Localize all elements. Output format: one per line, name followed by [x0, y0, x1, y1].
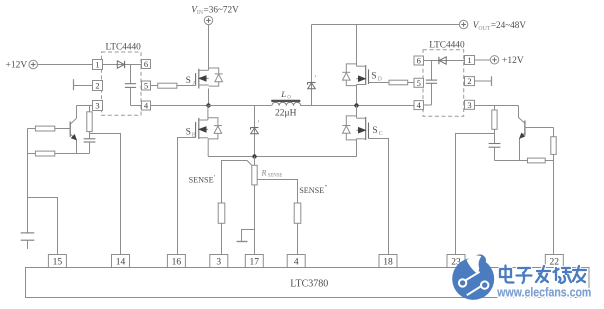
- svg-text:R: R: [261, 168, 267, 177]
- watermark text dianzifashaoyou: [500, 266, 586, 284]
- wire R5 to pin4: [297, 223, 299, 254]
- resistor R8 (U1 pin3 pull): [87, 106, 92, 139]
- wire VIN down to Q1 drain: [208, 25, 210, 71]
- resistor R9 (U2 pin3 pull): [492, 106, 497, 144]
- svg-text:+12V: +12V: [6, 61, 28, 71]
- svg-text:5: 5: [417, 78, 421, 88]
- svg-text:+12V: +12V: [502, 56, 524, 66]
- svg-text:6: 6: [144, 59, 148, 69]
- node SW2 junction: [354, 103, 358, 107]
- resistor R11 (right emitter rail): [495, 158, 554, 163]
- wire GND rail: [208, 156, 356, 158]
- pin 2 U1: [93, 81, 103, 91]
- svg-text:C: C: [379, 131, 383, 137]
- svg-text:3: 3: [95, 101, 99, 111]
- label SENSE-: [299, 184, 327, 195]
- pin 6 U1: [142, 59, 151, 69]
- capacitor C4 (node B): [489, 144, 501, 161]
- pin 15 U3: [48, 255, 66, 268]
- svg-text:6: 6: [417, 56, 421, 66]
- svg-text:S: S: [186, 76, 191, 86]
- label U2 LTC4440: [429, 40, 465, 50]
- capacitor C1 bootstrap (U1): [125, 65, 142, 106]
- svg-text:LTC3780: LTC3780: [290, 279, 328, 290]
- wire S_B gate to pin16: [178, 138, 196, 255]
- svg-text:3: 3: [216, 257, 221, 267]
- node SW1 junction: [206, 103, 210, 107]
- wire SW1 node: [208, 89, 210, 106]
- svg-text:D: D: [378, 77, 382, 83]
- wire U2 pin2 stub: [475, 76, 492, 86]
- wire switch line left: [151, 105, 209, 107]
- pin 5 U2: [414, 78, 424, 88]
- wire R4 to pin3: [221, 223, 223, 254]
- wire S_B source to GND rail: [207, 139, 209, 157]
- wire inductor to SW2: [300, 105, 414, 107]
- label 22uH: [275, 109, 297, 119]
- svg-text:SENSE: SENSE: [268, 174, 283, 179]
- resistor R1 gate S_A: [151, 83, 196, 88]
- svg-text:1: 1: [467, 55, 471, 65]
- node +12V (right supply): [475, 56, 524, 67]
- svg-text:3: 3: [467, 100, 471, 110]
- node GND/Rsense junction: [252, 154, 256, 158]
- node VOUT=24~48V: [459, 20, 526, 32]
- pin 3 U1: [93, 101, 103, 111]
- wire branch to pin15: [28, 198, 58, 255]
- svg-text:www.elecfans.com: www.elecfans.com: [496, 284, 591, 299]
- pin 4 U1: [142, 101, 151, 111]
- node VIN=36~72V: [191, 4, 239, 24]
- svg-text:18: 18: [383, 257, 393, 267]
- pin 2 U2: [465, 76, 475, 86]
- pin 1 U2: [465, 55, 475, 65]
- resistor R7 (emitter rail): [28, 151, 90, 156]
- pin 1 U1: [93, 60, 103, 70]
- diode D4 bootstrap (U2 internal): [424, 57, 465, 64]
- inductor L1 22uH: [271, 101, 300, 106]
- pin 14 U3: [112, 255, 130, 268]
- svg-text:S: S: [372, 126, 377, 136]
- capacitor C2 (left bottom): [21, 233, 35, 249]
- diode D1 bootstrap (U1 internal): [103, 61, 142, 68]
- svg-text:LTC4440: LTC4440: [106, 43, 142, 53]
- pin 23 U3: [447, 255, 465, 268]
- svg-text:15: 15: [53, 257, 63, 267]
- svg-text:5: 5: [144, 81, 148, 91]
- capacitor C5 bootstrap (U2): [424, 61, 438, 106]
- transistor Q4 S_D (top-right MOSFET): [342, 64, 381, 86]
- wire D2 branch: [254, 106, 256, 157]
- label R3 RSENSE: [261, 168, 283, 178]
- wire U1 pin2 stub: [74, 79, 93, 90]
- wire SENSE- net: [257, 180, 297, 204]
- pin 4 U3: [287, 255, 305, 268]
- svg-text:2: 2: [95, 81, 99, 91]
- resistor R10 (base to pin22): [551, 128, 556, 255]
- svg-text:S: S: [186, 127, 191, 137]
- op-amp U3 LTC3780 main controller box: [26, 268, 590, 298]
- svg-text:14: 14: [116, 257, 126, 267]
- resistor R5 SENSE-: [294, 203, 301, 223]
- svg-text:O: O: [287, 94, 291, 100]
- svg-text:16: 16: [172, 257, 182, 267]
- wire Q4 source to SW2: [356, 85, 358, 106]
- wire S_C source to GND rail: [356, 139, 358, 157]
- op-amp U1 LTC4440 (left gate driver, dashed outline): [102, 52, 142, 115]
- svg-text:’: ’: [314, 75, 316, 83]
- capacitor C3 (node A): [84, 139, 96, 154]
- watermark logo disc: [452, 254, 494, 299]
- svg-text:LTC4440: LTC4440: [429, 40, 465, 50]
- svg-text:S: S: [371, 72, 376, 82]
- wire U1 pin3 to Q5 collector: [77, 105, 93, 107]
- transistor Q5 (left BJT): [70, 106, 76, 154]
- wire Q6 base: [525, 127, 554, 129]
- pin 18 U3: [379, 255, 397, 268]
- pin 5 U1: [142, 81, 151, 91]
- svg-text:2: 2: [467, 76, 471, 86]
- pin 3 U2: [465, 100, 475, 110]
- label L1: [280, 89, 291, 100]
- svg-text:1: 1: [95, 60, 99, 70]
- pin 3 U3: [210, 255, 228, 268]
- wire left bias column: [27, 129, 29, 233]
- wire VOUT down to Q4 drain: [356, 25, 358, 67]
- pin 4 U2: [414, 100, 424, 110]
- wire +12V to U1 pin1: [38, 64, 93, 66]
- wire S_C gate to pin18: [369, 139, 389, 255]
- resistor R3 RSENSE: [252, 157, 257, 255]
- wire SW1 to inductor: [209, 105, 272, 107]
- svg-text:17: 17: [250, 257, 260, 267]
- pin 22 U3: [545, 255, 563, 268]
- transistor Q6 (right BJT): [519, 106, 525, 161]
- op-amp U2 LTC4440 (right gate driver, dashed outline): [423, 50, 464, 117]
- resistor R6 (Q5 base): [28, 126, 71, 131]
- watermark text www.elecfans.com: [496, 284, 591, 299]
- wire node A to pin14: [90, 134, 121, 255]
- wire SENSE+ net: [222, 161, 252, 204]
- svg-text:″: ″: [325, 184, 328, 191]
- svg-text:22: 22: [550, 257, 560, 267]
- svg-text:SENSE: SENSE: [299, 186, 324, 195]
- pin 17 U3: [245, 255, 263, 268]
- svg-text:SENSE: SENSE: [189, 175, 214, 184]
- label U1 LTC4440: [106, 43, 142, 53]
- svg-text:22μH: 22μH: [275, 109, 297, 119]
- svg-text:’: ’: [257, 120, 259, 128]
- pin 6 U2: [414, 56, 424, 66]
- wire D3 branch: [311, 25, 313, 106]
- diode D3 schottky: [308, 75, 317, 89]
- node +12V (left supply): [6, 60, 38, 70]
- ground: [237, 230, 255, 242]
- transistor Q3 S_C (bottom-right MOSFET): [342, 106, 383, 141]
- wire VOUT rail: [312, 24, 460, 26]
- resistor R4 SENSE+: [218, 203, 225, 223]
- transistor Q2 S_B (bottom-left MOSFET): [186, 106, 222, 139]
- wire U2 pin3 to Q6 collector: [475, 105, 519, 107]
- diode D2 schottky: [251, 120, 260, 134]
- resistor R2 gate S_D: [369, 80, 415, 85]
- svg-text:L: L: [280, 89, 286, 99]
- transistor Q1 S_A (top-left MOSFET): [186, 68, 223, 89]
- wire node B to pin23: [456, 134, 495, 255]
- label SENSE+: [189, 174, 216, 185]
- label U3 LTC3780: [290, 279, 328, 290]
- svg-text:4: 4: [294, 257, 299, 267]
- pin 16 U3: [167, 255, 185, 268]
